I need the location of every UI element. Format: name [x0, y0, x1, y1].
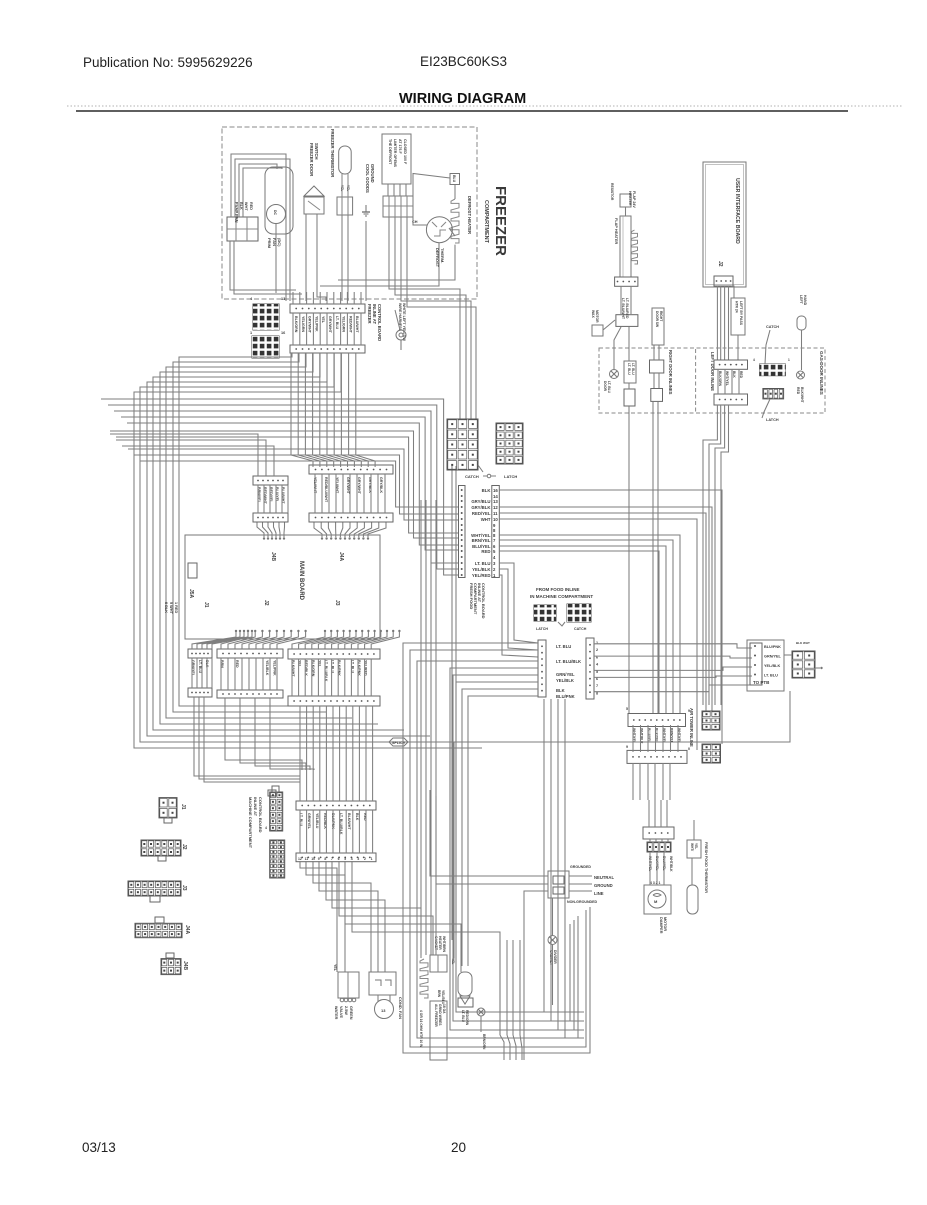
svg-text:YEL/BLU: YEL/BLU [315, 813, 319, 829]
svg-text:WHT/: WHT/ [690, 843, 694, 851]
svg-text:LINE: LINE [594, 891, 604, 896]
svg-text:GRN/YEL: GRN/YEL [556, 672, 575, 677]
svg-text:GAS-DOOR INLINES: GAS-DOOR INLINES [819, 351, 824, 395]
svg-text:COOL GOODS: COOL GOODS [365, 164, 370, 193]
svg-text:LT. BLU/WHT: LT. BLU/WHT [621, 298, 625, 320]
svg-text:FREEZER DOOR: FREEZER DOOR [309, 143, 314, 176]
svg-text:DEFROST HEATER: DEFROST HEATER [467, 196, 472, 234]
svg-text:RED: RED [796, 387, 800, 395]
svg-text:GRN/YEL: GRN/YEL [764, 655, 782, 659]
svg-text:CONTROL BOARD: CONTROL BOARD [258, 797, 263, 833]
svg-text:18 GA: 18 GA [442, 1004, 446, 1014]
svg-text:LATCH: LATCH [504, 474, 517, 479]
svg-text:BLK: BLK [556, 688, 565, 693]
svg-text:1: 1 [596, 641, 598, 645]
svg-text:16: 16 [493, 488, 498, 493]
svg-text:5: 5 [626, 707, 628, 711]
svg-text:11: 11 [305, 857, 309, 861]
svg-text:BLU/WHT: BLU/WHT [355, 316, 359, 333]
svg-text:COMPARTMENT: COMPARTMENT [483, 200, 489, 244]
svg-text:LT. BLU: LT. BLU [475, 561, 491, 566]
svg-text:J2: J2 [181, 844, 187, 850]
svg-text:YEL/PNK: YEL/PNK [273, 660, 277, 676]
svg-text:5: 5 [344, 857, 346, 861]
svg-text:RESISTOR: RESISTOR [610, 183, 614, 201]
svg-text:YEL/PNK: YEL/PNK [314, 316, 318, 332]
svg-text:Publication No: 5995629226: Publication No: 5995629226 [83, 55, 253, 70]
svg-text:CATCH: CATCH [465, 474, 479, 479]
svg-text:GRY/BLK: GRY/BLK [379, 477, 383, 493]
svg-text:LT. BLU: LT. BLU [764, 674, 778, 678]
svg-text:LT. BLU: LT. BLU [607, 381, 611, 394]
svg-text:LT. BLU: LT. BLU [556, 644, 571, 649]
svg-text:CATCH: CATCH [766, 325, 779, 329]
svg-text:8 BLK: 8 BLK [164, 602, 168, 613]
svg-text:RED/YEL: RED/YEL [472, 511, 491, 516]
svg-text:GRY/WHT: GRY/WHT [346, 477, 350, 495]
svg-text:IN MACHINE COMPARTMENT: IN MACHINE COMPARTMENT [530, 594, 593, 599]
svg-text:BLU: BLU [452, 175, 456, 183]
svg-text:RED: RED [739, 371, 743, 379]
svg-text:GROUND: GROUND [594, 883, 613, 888]
svg-text:THERM.: THERM. [440, 248, 445, 263]
svg-text:1: 1 [250, 331, 252, 335]
svg-text:HEATER: HEATER [438, 936, 442, 950]
svg-text:YEL: YEL [333, 964, 337, 972]
svg-text:AIR TOWER INLINE: AIR TOWER INLINE [689, 708, 694, 747]
svg-text:LT. BLU: LT. BLU [198, 660, 202, 674]
svg-text:RED: RED [235, 660, 239, 668]
svg-text:BLK/ORN: BLK/ORN [718, 371, 722, 387]
svg-text:LT. BLU: LT. BLU [627, 363, 631, 375]
svg-text:1: 1 [788, 358, 790, 362]
svg-text:HEATER: HEATER [628, 191, 632, 206]
svg-text:WAX: WAX [591, 310, 595, 318]
svg-text:7: 7 [331, 857, 333, 861]
svg-text:WHT: WHT [481, 517, 491, 522]
svg-text:GRY/BLK: GRY/BLK [471, 505, 491, 510]
svg-text:LEFT: LEFT [799, 295, 803, 305]
svg-text:YEL/BLK: YEL/BLK [556, 678, 574, 683]
svg-text:YEL/BLK: YEL/BLK [764, 664, 781, 668]
svg-text:GROUNDED: GROUNDED [570, 865, 591, 869]
svg-text:YEL/RED: YEL/RED [472, 573, 491, 578]
svg-text:CLOSED 100 F: CLOSED 100 F [403, 139, 407, 165]
svg-text:9: 9 [688, 709, 690, 713]
svg-text:LEFT DOOR INLINE: LEFT DOOR INLINE [710, 352, 715, 391]
svg-text:MACHINE COMPARTMENT: MACHINE COMPARTMENT [248, 797, 253, 849]
svg-text:YEL/BLK: YEL/BLK [265, 660, 269, 676]
svg-text:LATCH: LATCH [766, 418, 779, 422]
svg-text:FLAP 24V: FLAP 24V [632, 191, 636, 208]
svg-text:2: 2 [364, 857, 366, 861]
svg-text:MOTOR: MOTOR [595, 310, 599, 323]
svg-text:13: 13 [281, 297, 285, 301]
svg-text:WHT: WHT [244, 202, 248, 211]
svg-text:8: 8 [324, 857, 326, 861]
svg-text:4: 4 [351, 857, 353, 861]
svg-text:LATCH: LATCH [536, 627, 548, 631]
svg-text:FRESH FOOD THERMISTOR: FRESH FOOD THERMISTOR [704, 842, 708, 893]
svg-text:AT 176 F: AT 176 F [398, 139, 402, 155]
svg-text:4: 4 [265, 826, 267, 830]
svg-text:RED: RED [249, 202, 253, 210]
svg-text:GRN/YEL: GRN/YEL [307, 813, 311, 830]
svg-text:ALL FREEZER: ALL FREEZER [434, 1004, 438, 1027]
svg-text:J3: J3 [181, 885, 187, 891]
svg-text:COND. FAN: COND. FAN [398, 997, 403, 1019]
svg-text:9: 9 [626, 745, 628, 749]
svg-text:GRY/BLU: GRY/BLU [471, 499, 490, 504]
svg-text:03/13: 03/13 [82, 1140, 116, 1155]
svg-text:GROUND: GROUND [370, 164, 375, 183]
svg-text:12: 12 [298, 857, 302, 861]
svg-text:VALVE: VALVE [339, 1006, 343, 1019]
svg-text:CONTROL BOARD: CONTROL BOARD [481, 583, 486, 619]
svg-text:BLK: BLK [239, 202, 243, 210]
svg-text:GRY/WHT: GRY/WHT [328, 316, 332, 334]
svg-text:YEL/GRN: YEL/GRN [342, 316, 346, 332]
svg-text:RED: RED [481, 549, 490, 554]
svg-text:DOOR: DOOR [603, 381, 607, 392]
svg-text:SPLICE: SPLICE [392, 741, 406, 745]
svg-text:J2: J2 [263, 600, 269, 606]
svg-text:4: 4 [753, 358, 755, 362]
svg-text:4 OR 16 OHM HTR 10 W: 4 OR 16 OHM HTR 10 W [419, 1010, 423, 1048]
svg-text:GRY/WHT: GRY/WHT [357, 477, 361, 495]
svg-text:10: 10 [311, 857, 315, 861]
svg-text:RED/WHT: RED/WHT [348, 316, 352, 334]
svg-text:J4A: J4A [184, 925, 190, 935]
svg-text:LT. BLU: LT. BLU [461, 1010, 465, 1023]
svg-text:HAND: HAND [803, 295, 807, 306]
svg-text:WIRE HARNESS: WIRE HARNESS [398, 303, 402, 332]
svg-text:LT. BLU: LT. BLU [631, 363, 635, 375]
svg-text:HTR 24: HTR 24 [735, 301, 739, 313]
svg-text:1: 1 [371, 857, 373, 861]
svg-text:DOOR SW: DOOR SW [655, 311, 659, 328]
svg-text:BLK: BLK [732, 371, 736, 378]
svg-text:20: 20 [451, 1140, 466, 1155]
svg-text:YEL: YEL [451, 958, 455, 964]
svg-text:WHT/YEL: WHT/YEL [725, 371, 729, 386]
svg-text:BLU/PNK: BLU/PNK [556, 694, 575, 699]
svg-text:J2: J2 [717, 261, 723, 267]
svg-text:FREEZER THERMISTOR: FREEZER THERMISTOR [330, 129, 335, 177]
svg-text:WIRING DIAGRAM: WIRING DIAGRAM [399, 91, 526, 107]
svg-text:INLINE AT: INLINE AT [372, 304, 377, 324]
svg-text:6: 6 [338, 857, 340, 861]
svg-text:RED/ORN: RED/ORN [465, 1010, 469, 1026]
svg-text:16: 16 [281, 331, 285, 335]
svg-text:THE DEFROST: THE DEFROST [388, 139, 392, 165]
svg-text:TO PTB: TO PTB [753, 680, 770, 685]
svg-text:NEUTRAL: NEUTRAL [594, 875, 614, 880]
svg-text:DIVIDER: DIVIDER [553, 950, 557, 964]
svg-text:BRN: BRN [437, 990, 441, 998]
svg-text:LT. BLU/RED: LT. BLU/RED [625, 298, 629, 319]
svg-text:BRN/YEL: BRN/YEL [472, 538, 491, 543]
svg-text:INLINE AT: INLINE AT [253, 797, 258, 817]
svg-text:10: 10 [493, 517, 498, 522]
svg-text:CONTROL BOARD: CONTROL BOARD [377, 304, 382, 341]
svg-text:YEL/GRN: YEL/GRN [301, 316, 305, 332]
svg-text:WHT/BRN: WHT/BRN [442, 936, 446, 953]
svg-text:LIMITER OPENS: LIMITER OPENS [393, 139, 397, 168]
svg-text:YEL: YEL [321, 316, 325, 324]
svg-text:WATER: WATER [334, 1006, 338, 1020]
svg-text:J4A: J4A [338, 552, 344, 562]
svg-text:FLAP HEATER: FLAP HEATER [614, 218, 618, 244]
svg-text:12: 12 [493, 505, 498, 510]
svg-text:J5A: J5A [188, 589, 194, 599]
svg-text:DAMPER: DAMPER [659, 917, 663, 934]
svg-text:9 WHT: 9 WHT [169, 602, 173, 614]
svg-text:3: 3 [357, 857, 359, 861]
svg-text:J4B: J4B [270, 552, 276, 562]
svg-text:2.5W: 2.5W [344, 1006, 348, 1015]
svg-text:13: 13 [381, 1008, 386, 1013]
svg-text:BLK: BLK [482, 488, 492, 493]
svg-text:BRN/ORN: BRN/ORN [482, 1034, 486, 1050]
svg-text:RIGHT DOOR INLINES: RIGHT DOOR INLINES [668, 350, 673, 395]
svg-text:GREEN: GREEN [349, 1006, 353, 1020]
svg-text:DC: DC [273, 210, 277, 216]
svg-text:YEL: YEL [694, 843, 698, 849]
svg-text:4 3 2 1: 4 3 2 1 [650, 881, 660, 885]
svg-text:RED/BLU/WHT: RED/BLU/WHT [324, 477, 328, 503]
svg-text:BLK WHT: BLK WHT [796, 641, 810, 645]
svg-text:FREEZER: FREEZER [367, 304, 372, 324]
svg-text:EI23BC60KS3: EI23BC60KS3 [420, 54, 507, 69]
svg-text:SWITCH: SWITCH [314, 143, 319, 160]
svg-text:MOTOR: MOTOR [663, 917, 667, 931]
svg-text:GRND WIRES: GRND WIRES [438, 1004, 442, 1026]
svg-text:(DC): (DC) [277, 238, 282, 247]
svg-text:PRIM: PRIM [267, 238, 272, 249]
svg-text:1 RED: 1 RED [174, 602, 178, 613]
svg-text:CATCH: CATCH [574, 627, 587, 631]
svg-text:NON-GROUNDED: NON-GROUNDED [567, 900, 598, 904]
svg-text:BLU/PNK: BLU/PNK [764, 645, 781, 649]
svg-text:GRY/WHT: GRY/WHT [308, 316, 312, 334]
svg-text:LEFT BY PASS: LEFT BY PASS [739, 301, 743, 326]
svg-text:J1: J1 [180, 804, 186, 810]
svg-text:BLK/WHT: BLK/WHT [347, 813, 351, 830]
svg-text:9: 9 [318, 857, 320, 861]
svg-text:LT. BLU: LT. BLU [335, 316, 339, 330]
svg-text:J3: J3 [334, 600, 340, 606]
svg-text:0: 0 [688, 747, 690, 751]
svg-text:7: 7 [596, 684, 598, 688]
svg-text:WHT/BLK: WHT/BLK [669, 856, 673, 872]
svg-text:BLK: BLK [355, 813, 359, 821]
svg-text:YEL/BLK: YEL/BLK [472, 567, 491, 572]
svg-text:USER INTERFACE BOARD: USER INTERFACE BOARD [734, 178, 740, 244]
svg-text:J4B: J4B [182, 961, 188, 971]
svg-text:MAIN BOARD: MAIN BOARD [298, 561, 304, 601]
svg-text:2: 2 [596, 648, 598, 652]
svg-text:FREEZER: FREEZER [492, 186, 509, 256]
svg-text:J1: J1 [203, 602, 209, 608]
svg-text:RIGHT: RIGHT [659, 311, 663, 321]
svg-text:FROM FOOD INLINE: FROM FOOD INLINE [536, 587, 580, 592]
svg-text:11: 11 [493, 511, 498, 516]
svg-text:BLK/WHT: BLK/WHT [800, 387, 804, 404]
svg-text:YEL/BLU: YEL/BLU [441, 990, 445, 1005]
svg-text:LT. BLU/BLK: LT. BLU/BLK [556, 659, 581, 664]
svg-text:BLK/ORN: BLK/ORN [294, 316, 298, 333]
svg-text:13: 13 [493, 499, 498, 504]
